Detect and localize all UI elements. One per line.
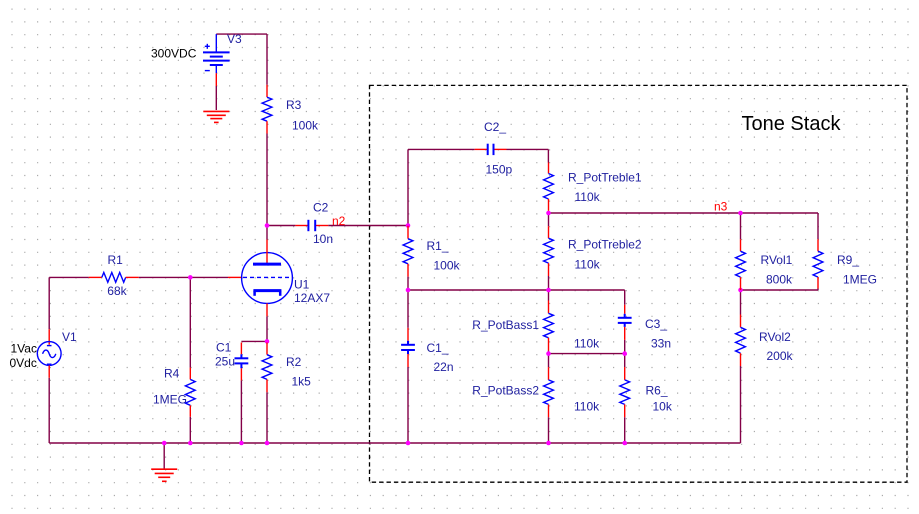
svg-text:12AX7: 12AX7 [294, 291, 330, 305]
svg-text:C2: C2 [313, 200, 329, 214]
wire [266, 316, 268, 341]
wire [548, 290, 550, 301]
node R4 top / grid wire [188, 275, 193, 280]
svg-text:R1_: R1_ [427, 239, 449, 253]
svg-text:110k: 110k [575, 257, 601, 271]
resistor RVol2 [736, 315, 794, 367]
wire [216, 33, 267, 35]
net label n2 [332, 214, 346, 228]
svg-text:150p: 150p [486, 163, 513, 177]
resistor RVol1 [736, 239, 793, 290]
wire [407, 367, 409, 443]
node bass wiper [546, 351, 551, 356]
svg-text:33n: 33n [651, 336, 671, 350]
ground (power) below V3 [203, 111, 229, 122]
wire [266, 134, 268, 226]
svg-text:1MEG: 1MEG [153, 393, 187, 407]
wire [408, 289, 625, 291]
wire [407, 277, 409, 290]
wire [266, 392, 268, 443]
node RVol1/RVol2 wiper [738, 288, 743, 293]
svg-text:R6_: R6_ [646, 384, 668, 398]
ground (0) below bottom rail [151, 469, 177, 481]
resistor R_PotBass1 [472, 301, 600, 351]
svg-text:110k: 110k [574, 336, 600, 350]
node n3 RVol1 top [738, 211, 743, 216]
battery V3 [203, 32, 242, 86]
capacitor C1 [215, 341, 248, 381]
wire [624, 417, 626, 443]
svg-text:R1: R1 [108, 253, 124, 267]
svg-text:RVol2: RVol2 [759, 330, 791, 344]
svg-text:C1_: C1_ [427, 341, 449, 355]
resistor R4 [153, 366, 195, 417]
svg-text:110k: 110k [575, 190, 601, 204]
wire [49, 442, 740, 444]
svg-text:R_PotBass2: R_PotBass2 [472, 384, 539, 398]
wire [163, 443, 165, 469]
node plate/C2/R3 [265, 223, 270, 228]
wire [817, 289, 819, 291]
wire [624, 340, 626, 354]
resistor R6_ [620, 367, 673, 417]
Tone Stack dashed boundary box [370, 85, 908, 482]
wire [408, 148, 475, 150]
capacitor C1_ [401, 328, 453, 374]
node treble2/bass1 [546, 288, 551, 293]
wire [548, 213, 550, 226]
wire [328, 225, 408, 227]
svg-text:200k: 200k [767, 349, 794, 363]
node ground tap [162, 441, 167, 446]
svg-text:100k: 100k [434, 259, 461, 273]
svg-text:n2: n2 [332, 214, 346, 228]
svg-text:100k: 100k [292, 119, 319, 133]
net label n3 [714, 200, 728, 214]
svg-text:1Vac: 1Vac [11, 342, 37, 356]
wire [507, 148, 549, 150]
svg-text:110k: 110k [574, 399, 600, 413]
AC source V1 [37, 329, 77, 378]
wire [240, 380, 242, 443]
wire [817, 213, 819, 239]
resistor R_PotTreble1 [544, 163, 642, 211]
resistor R1_ [403, 226, 460, 277]
wire [740, 290, 742, 315]
wire [547, 149, 549, 162]
svg-text:10n: 10n [313, 232, 333, 246]
svg-text:C2_: C2_ [484, 120, 506, 134]
svg-text:Tone Stack: Tone Stack [742, 113, 842, 135]
capacitor C2 [295, 200, 333, 246]
node R6_ bottom [622, 441, 627, 446]
capacitor C3_ [618, 305, 671, 351]
resistor R_PotTreble2 [544, 226, 642, 276]
svg-text:C3_: C3_ [645, 317, 667, 331]
wire [548, 351, 550, 368]
wire [241, 340, 267, 342]
svg-text:RVol1: RVol1 [761, 253, 793, 267]
svg-text:1MEG: 1MEG [843, 272, 877, 286]
wire [407, 149, 409, 225]
wire [624, 290, 626, 305]
resistor R1 [89, 253, 139, 298]
wire [189, 277, 191, 367]
svg-text:800k: 800k [766, 272, 793, 286]
svg-text:25u: 25u [215, 355, 235, 369]
svg-text:R_PotBass1: R_PotBass1 [472, 318, 539, 332]
svg-text:300VDC: 300VDC [151, 47, 197, 61]
svg-text:R9_: R9_ [837, 253, 859, 267]
node treble wiper [546, 211, 551, 216]
svg-text:n3: n3 [714, 200, 728, 214]
svg-text:10k: 10k [653, 399, 673, 413]
wire [741, 289, 819, 291]
wire [49, 276, 88, 278]
resistor R_PotBass2 [472, 367, 600, 417]
node bass2 bottom [546, 441, 551, 446]
wire [266, 226, 268, 240]
wire [189, 417, 191, 443]
resistor R9_ [813, 239, 877, 288]
node R1_/C1_/mid-wire [406, 288, 411, 293]
svg-text:C1: C1 [216, 341, 232, 355]
node R2 bottom [265, 441, 270, 446]
svg-text:R_PotTreble1: R_PotTreble1 [568, 171, 642, 185]
wire [549, 212, 819, 214]
svg-text:R3: R3 [286, 98, 302, 112]
wire [266, 34, 268, 85]
svg-text:V3: V3 [227, 32, 242, 46]
node n2 junction [406, 223, 411, 228]
wire [267, 225, 295, 227]
svg-text:22n: 22n [434, 360, 454, 374]
triode U1 12AX7 [228, 240, 330, 317]
svg-text:U1: U1 [294, 278, 310, 292]
svg-text:R4: R4 [164, 366, 180, 380]
node C3_/R6_ [622, 351, 627, 356]
svg-text:R_PotTreble2: R_PotTreble2 [568, 238, 642, 252]
node C1_ bottom [406, 441, 411, 446]
svg-text:0Vdc: 0Vdc [10, 356, 37, 370]
wire [548, 276, 550, 290]
svg-text:68k: 68k [107, 284, 127, 298]
resistor R3 [262, 85, 319, 134]
resistor R2 [262, 343, 311, 393]
wire [407, 290, 409, 328]
wire [139, 276, 228, 278]
V3 value label 300VDC [151, 47, 197, 61]
wire [215, 86, 217, 110]
wire [548, 417, 550, 443]
wire [740, 213, 742, 239]
Tone Stack title text [742, 113, 842, 135]
node C1 bottom [239, 441, 244, 446]
wire [48, 378, 50, 443]
wire [48, 277, 50, 329]
wire [549, 353, 625, 355]
wire [740, 366, 742, 443]
capacitor C2_ [475, 120, 513, 177]
wire [624, 354, 626, 368]
V1 value labels 1Vac 0Vdc [10, 342, 37, 371]
svg-text:V1: V1 [62, 330, 77, 344]
node R4 bottom [188, 441, 193, 446]
svg-text:1k5: 1k5 [292, 375, 312, 389]
node cathode/C1/R2 [265, 339, 270, 344]
svg-text:R2: R2 [286, 355, 302, 369]
